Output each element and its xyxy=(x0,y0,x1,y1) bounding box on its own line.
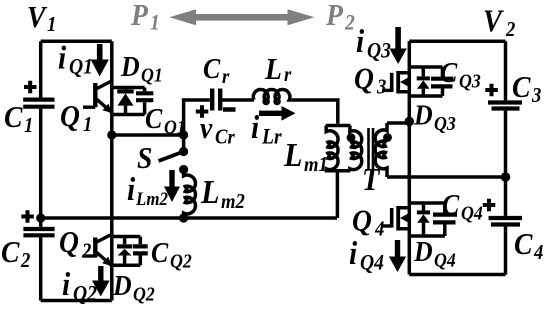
svg-text:4: 4 xyxy=(533,241,543,264)
snubber box wires Q1 xyxy=(112,88,145,115)
node DQ3 junction dot xyxy=(405,117,415,127)
transformer top bar xyxy=(326,124,351,128)
svg-text:i: i xyxy=(251,108,259,145)
svg-text:r: r xyxy=(222,65,230,88)
svg-text:L: L xyxy=(283,135,302,173)
svg-text:Q2: Q2 xyxy=(170,251,192,273)
current arrow iQ4 xyxy=(389,240,406,272)
current arrow iQ2 xyxy=(92,266,110,297)
inductor Lr xyxy=(253,89,291,103)
svg-text:3: 3 xyxy=(531,84,541,107)
capacitor Cr xyxy=(196,89,236,118)
svg-text:3: 3 xyxy=(376,76,386,99)
secondary polarity dot xyxy=(383,133,392,142)
capacitor C4 xyxy=(483,199,522,225)
current arrow iLr xyxy=(259,106,296,121)
svg-text:Q: Q xyxy=(354,62,374,96)
transistor Q4 (MOSFET) xyxy=(382,206,409,231)
node A dot at riser xyxy=(179,130,188,139)
node A dot at leg xyxy=(107,130,116,139)
svg-text:D: D xyxy=(120,51,140,83)
svg-text:C: C xyxy=(145,103,163,135)
wire mid-left rail (node B) xyxy=(41,216,337,220)
capacitor CQ4 xyxy=(433,215,457,223)
capacitor CQ3 xyxy=(431,79,454,87)
svg-text:v: v xyxy=(200,112,213,146)
transistor Q1 (IGBT) xyxy=(83,81,113,113)
node A wire xyxy=(112,133,184,137)
svg-text:2: 2 xyxy=(20,249,30,272)
wire right rail upper xyxy=(504,41,508,100)
wire right leg (Q3/Q4) xyxy=(408,41,412,274)
svg-text:i: i xyxy=(356,22,364,59)
svg-text:Lr: Lr xyxy=(261,123,282,148)
inductor Lm2 xyxy=(184,170,196,219)
diode DQ1 xyxy=(117,88,133,115)
diode DQ4 xyxy=(417,203,430,236)
svg-text:D: D xyxy=(413,99,433,131)
svg-text:T: T xyxy=(362,161,381,197)
capacitor C3 xyxy=(485,84,522,109)
svg-text:Q2: Q2 xyxy=(133,284,155,306)
wire mid-right rail xyxy=(387,175,506,179)
svg-text:i: i xyxy=(127,170,135,207)
svg-text:m2: m2 xyxy=(221,190,245,213)
svg-text:C: C xyxy=(4,101,23,135)
svg-text:Q: Q xyxy=(60,100,80,134)
wire secondary top to leg xyxy=(387,121,409,125)
transistor Q3 (MOSFET) xyxy=(382,71,409,94)
svg-text:1: 1 xyxy=(24,114,33,137)
wire bottom-left rail xyxy=(41,299,112,303)
svg-text:Q3: Q3 xyxy=(367,37,391,62)
wire Lr to transformer xyxy=(291,100,338,124)
svg-text:P: P xyxy=(325,0,344,32)
svg-text:m1: m1 xyxy=(304,153,328,176)
svg-text:Q: Q xyxy=(352,204,372,238)
svg-text:C: C xyxy=(440,57,458,89)
current arrow iQ1 xyxy=(91,44,109,77)
svg-text:i: i xyxy=(62,265,70,302)
capacitor C1 xyxy=(23,81,54,107)
svg-text:C: C xyxy=(514,228,533,262)
svg-text:C: C xyxy=(512,71,531,105)
svg-text:2: 2 xyxy=(81,240,91,263)
svg-text:Q3: Q3 xyxy=(434,113,456,135)
junction dot Lm2 bottom xyxy=(179,213,188,222)
svg-text:Q3: Q3 xyxy=(459,71,481,93)
svg-text:Q: Q xyxy=(59,226,79,260)
svg-text:L: L xyxy=(264,53,282,87)
node B junction dot at left rail xyxy=(36,213,45,222)
power flow double arrow P1-P2 xyxy=(169,9,314,25)
switch S riser xyxy=(182,135,186,152)
svg-text:Q4: Q4 xyxy=(434,250,456,272)
svg-text:1: 1 xyxy=(47,13,56,36)
snubber box wires Q4 xyxy=(409,203,445,236)
svg-text:2: 2 xyxy=(505,18,515,41)
wire right rail middle xyxy=(504,111,508,216)
svg-text:1: 1 xyxy=(150,9,160,34)
svg-text:r: r xyxy=(284,63,292,86)
svg-text:V: V xyxy=(483,3,505,39)
svg-text:Q1: Q1 xyxy=(69,53,93,78)
svg-text:Q4: Q4 xyxy=(360,249,384,274)
svg-text:P: P xyxy=(130,0,149,32)
diode DQ3 xyxy=(417,67,430,96)
svg-text:V: V xyxy=(27,1,48,35)
svg-text:4: 4 xyxy=(374,218,384,241)
capacitor CQ2 xyxy=(133,246,148,253)
svg-text:C: C xyxy=(442,189,460,221)
wire left rail middle xyxy=(39,109,43,227)
transformer primary winding xyxy=(350,126,362,171)
transformer bottom bar xyxy=(325,169,351,173)
svg-text:D: D xyxy=(413,236,433,268)
svg-text:2: 2 xyxy=(344,9,355,34)
wire right rail lower xyxy=(504,227,508,275)
current arrow iLm2 xyxy=(164,170,180,202)
svg-text:i: i xyxy=(349,234,357,271)
svg-text:C: C xyxy=(151,237,169,269)
snubber box wires Q3 xyxy=(409,67,442,96)
transformer core xyxy=(369,128,374,170)
capacitor CQ1 xyxy=(136,93,153,100)
wire left rail lower xyxy=(39,237,43,300)
svg-text:S: S xyxy=(137,142,152,176)
diode DQ2 xyxy=(117,237,132,266)
svg-text:Lm2: Lm2 xyxy=(135,188,168,209)
wire node A riser xyxy=(184,100,210,135)
svg-text:D: D xyxy=(112,270,132,302)
svg-text:i: i xyxy=(58,39,66,76)
inductor Lm1 xyxy=(326,126,338,171)
svg-text:1: 1 xyxy=(83,113,92,136)
switch S xyxy=(159,147,189,174)
wire left leg (Q1/Q2 phase leg) xyxy=(110,41,114,300)
wire transformer bottom stub to node B xyxy=(336,171,340,218)
wire top-left rail xyxy=(41,40,112,44)
svg-text:C: C xyxy=(1,236,20,270)
capacitor C2 xyxy=(21,210,54,235)
wire left rail upper xyxy=(39,41,43,97)
wire Cr to Lr xyxy=(222,98,254,102)
transformer secondary winding xyxy=(375,123,387,177)
svg-text:C: C xyxy=(203,53,221,85)
current arrow iQ3 xyxy=(389,27,406,64)
wire bottom-right rail xyxy=(409,273,505,277)
svg-text:Cr: Cr xyxy=(215,126,235,149)
primary polarity dot xyxy=(347,133,356,142)
svg-text:L: L xyxy=(200,172,219,210)
wire top-right rail xyxy=(409,40,505,44)
snubber box wires Q2 xyxy=(112,237,141,266)
junction dot right rail middle xyxy=(501,172,511,182)
svg-text:Q1: Q1 xyxy=(141,65,163,87)
transistor Q2 (IGBT) xyxy=(83,234,112,266)
svg-text:Q2: Q2 xyxy=(73,280,97,305)
svg-text:Q4: Q4 xyxy=(461,203,483,225)
